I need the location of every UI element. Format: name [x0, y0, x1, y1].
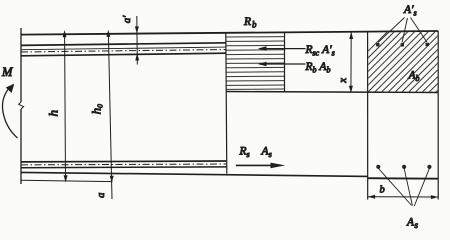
svg-text:As: As [406, 217, 419, 231]
force arrow R_s A_s (tension steel) [236, 163, 285, 169]
dimension extension line a' with arrows [135, 16, 139, 65]
dimension line b [368, 195, 438, 199]
svg-text:a: a [96, 193, 107, 198]
cross-section bottom edge [368, 177, 439, 180]
beam bottom face line [21, 172, 368, 176]
top reinforcement A's band: lower line [21, 53, 226, 56]
beam left edge with break mark [19, 28, 24, 184]
dimension line x (compressed zone depth) [349, 32, 353, 93]
svg-text:A′s: A′s [403, 4, 417, 18]
svg-text:x: x [337, 78, 349, 84]
top reinforcement A's band: inner thin line [21, 47, 226, 50]
bottom reinforcement bars (3 dots) [376, 165, 431, 169]
svg-text:Rs As: Rs As [239, 146, 272, 160]
top reinforcement A's band: upper line [21, 43, 226, 46]
leader lines from label A's to top bars [378, 18, 427, 43]
svg-text:Rsc A′s: Rsc A′s [305, 44, 335, 58]
bottom reinforcement A_s axis (dash-dot) [21, 163, 226, 166]
compressed zone diagonal hatching A_b [320, 30, 450, 99]
dimension line h0 [106, 30, 113, 199]
neutral axis line (bottom of compressed zone) [226, 92, 438, 93]
force arrow R_sc A's (compression steel) [258, 46, 306, 51]
stress block horizontal hatching [226, 37, 284, 90]
cross-section right edge (with extension for b) [437, 31, 439, 200]
top reinforcement A's axis (dash-dot) [21, 50, 226, 53]
section cut line / stress block left edge [226, 33, 227, 174]
cross-section left edge (with extension for b) [367, 31, 369, 199]
force arrow R_b A_b (concrete compression) [258, 62, 306, 67]
bottom dimension reference line [21, 180, 113, 181]
svg-text:b: b [380, 185, 385, 196]
moment M curved arrow [2, 84, 17, 138]
svg-text:h: h [46, 110, 61, 117]
svg-text:Rb: Rb [243, 16, 257, 30]
svg-text:M: M [1, 65, 13, 79]
stress block right edge [284, 33, 286, 92]
dimension line h [63, 30, 68, 183]
top reinforcement bars (3 squares) [376, 43, 429, 47]
beam top face line (continues as section top edge) [21, 31, 438, 35]
svg-text:a′: a′ [122, 15, 133, 23]
leader lines from bottom bars to label A_s [379, 169, 430, 207]
bottom reinforcement A_s band: upper line [21, 160, 226, 163]
svg-text:Rb Ab: Rb Ab [305, 61, 331, 75]
svg-text:Ab: Ab [408, 70, 420, 84]
svg-text:h0: h0 [88, 104, 104, 115]
bottom reinforcement A_s band: lower line [21, 166, 226, 169]
